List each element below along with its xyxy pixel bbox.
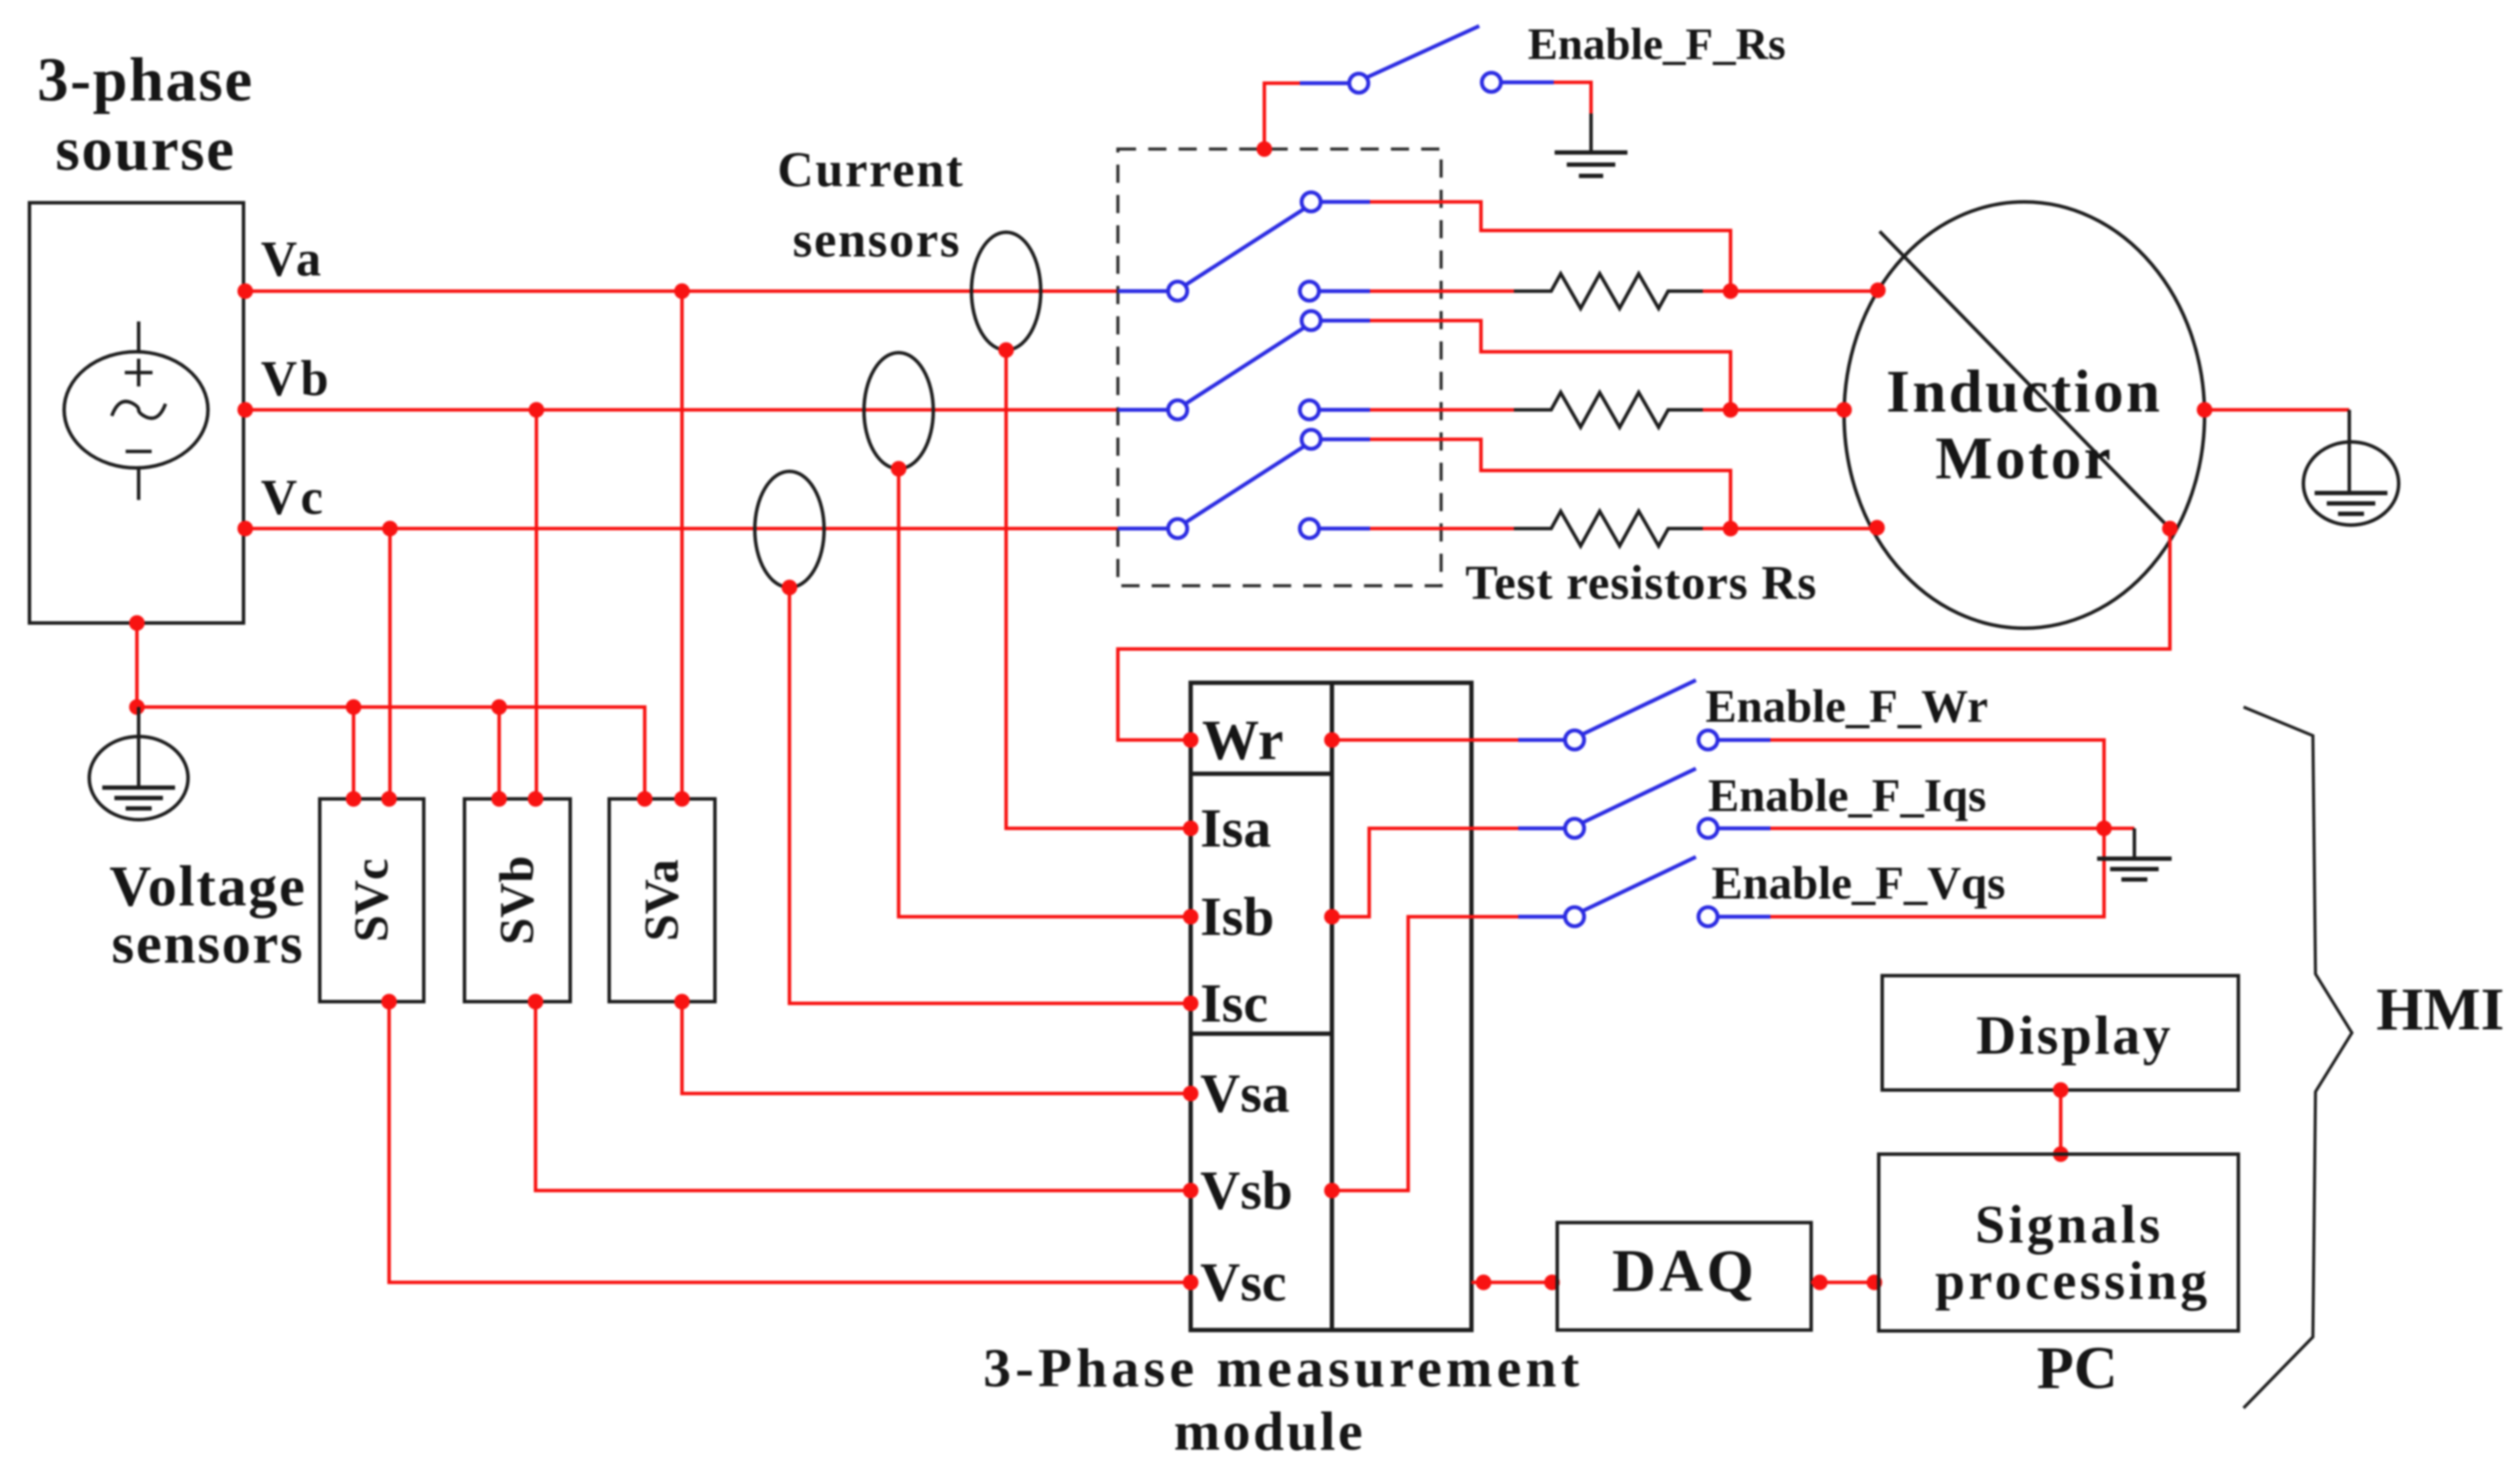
ground PE left (89, 707, 188, 820)
svg-text:Enable_F_Vqs: Enable_F_Vqs (1711, 857, 2005, 909)
node SVa pin right (674, 791, 690, 807)
node SVc pin right (381, 791, 397, 807)
svg-text:SVa: SVa (635, 860, 689, 941)
switch Enable_F_Rs (1257, 26, 1591, 157)
svg-text:Induction: Induction (1887, 359, 2163, 425)
svg-text:SVc: SVc (345, 859, 399, 942)
svg-text:SVb: SVb (490, 856, 544, 945)
induction motor M (1844, 202, 2205, 628)
HMI brace (2244, 707, 2352, 1408)
svg-text:Current: Current (777, 141, 964, 198)
switch Enable_F_Vqs (1518, 857, 1770, 926)
current sensor Isc (755, 471, 824, 587)
wire Vb to SVb (535, 410, 538, 799)
resistor Rs b (1370, 393, 1844, 427)
3-phase source box (29, 203, 244, 623)
node Wr out (1324, 732, 1340, 748)
svg-text:Wr: Wr (1202, 709, 1283, 772)
node pin Isc (1183, 996, 1198, 1011)
svg-text:sensors: sensors (793, 211, 961, 268)
switch S3 (phase c) (1118, 430, 1370, 538)
svg-text:Display: Display (1976, 1004, 2173, 1066)
wire SVb to Vsb (536, 1002, 1191, 1191)
node SVb pin right (528, 791, 543, 807)
Signals processing box (1879, 1154, 2238, 1331)
svg-text:Isc: Isc (1200, 972, 1268, 1034)
wire Isc down (789, 587, 1191, 1003)
Voltage sensors label (109, 854, 306, 976)
wire Vc to SVc (388, 529, 392, 799)
svg-text:Isb: Isb (1200, 886, 1274, 947)
svg-text:Vsa: Vsa (1200, 1062, 1289, 1124)
svg-text:sensors: sensors (112, 912, 304, 976)
switch S2 (phase b) (1118, 311, 1370, 419)
wire module to DAQ (1471, 1281, 1557, 1284)
wire bypass c (1370, 439, 1731, 529)
switch Enable_F_Iqs (1518, 769, 1770, 838)
node SVb pin left (491, 791, 507, 807)
current sensor Isa (971, 232, 1041, 350)
wire SVc to Vsc (389, 1002, 1191, 1282)
wire Vb (244, 408, 1118, 412)
svg-text:processing: processing (1935, 1252, 2211, 1311)
wire ground rail (137, 707, 645, 799)
svg-text:3-phase: 3-phase (37, 45, 254, 114)
svg-text:Vb: Vb (261, 350, 332, 406)
wire Isb down (899, 469, 1191, 917)
wire rail to SVb (497, 707, 501, 799)
node SVc pin left (346, 791, 361, 807)
svg-text:HMI: HMI (2376, 977, 2504, 1043)
wire Wr out (1332, 738, 1518, 742)
node Vb (237, 402, 253, 418)
node junction b (1723, 402, 1738, 418)
Current sensors label (777, 141, 964, 268)
motor terminal dots (1870, 282, 1886, 298)
ground (enable rail) (2097, 828, 2172, 879)
3-Phase measurement module label (984, 1337, 1584, 1462)
wire bypass a (1370, 202, 1731, 291)
voltage sensor SVa (609, 799, 715, 1002)
node Va (237, 283, 253, 299)
wire Vsb to Vqs switch (1332, 917, 1518, 1191)
current sensor Isb (864, 353, 933, 469)
svg-text:Vsb: Vsb (1200, 1159, 1293, 1221)
svg-text:Vc: Vc (261, 469, 327, 525)
wire Display to Signals processing (2059, 1090, 2062, 1154)
node junction c (1723, 521, 1738, 536)
svg-text:Enable_F_Wr: Enable_F_Wr (1705, 680, 1988, 732)
wire SVa to Vsa (682, 1002, 1191, 1093)
svg-text:Vsc: Vsc (1200, 1251, 1287, 1313)
svg-text:Voltage: Voltage (109, 854, 306, 918)
node junction a (1723, 283, 1738, 299)
node pin Isb (1183, 909, 1198, 925)
wire enable rail (1770, 740, 2104, 917)
svg-text:Test resistors Rs: Test resistors Rs (1465, 556, 1817, 610)
3-Phase measurement module box (1191, 683, 1471, 1330)
3-phase source label (37, 45, 254, 184)
wire DAQ to Signals processing (1811, 1281, 1879, 1284)
svg-text:sourse: sourse (55, 114, 236, 184)
svg-text:3-Phase measurement: 3-Phase measurement (984, 1337, 1584, 1398)
svg-text:module: module (1174, 1400, 1366, 1462)
svg-text:Motor: Motor (1935, 425, 2113, 492)
DAQ box (1557, 1223, 1811, 1330)
node SVa pin left (637, 791, 653, 807)
wire Va (244, 289, 1118, 293)
Display box (1882, 976, 2238, 1090)
switch S1 (phase a) (1118, 192, 1370, 301)
wire motor Wr to module (1118, 529, 2170, 740)
wire Isb to Iqs switch (1332, 828, 1518, 917)
module pin labels (1200, 709, 1293, 1313)
svg-text:Signals: Signals (1975, 1196, 2164, 1255)
node pin Wr (1183, 732, 1198, 748)
node Vc (237, 521, 253, 536)
wire Iqs to rail (1770, 827, 2134, 830)
ground (Enable_F_Rs) (1555, 114, 1627, 176)
wire motor to earth (2205, 408, 2349, 412)
node pin Vsb (1183, 1183, 1198, 1198)
svg-text:Isa: Isa (1200, 797, 1271, 859)
svg-text:Va: Va (261, 230, 325, 287)
wire Isa down (1006, 350, 1191, 828)
dashed relay box (1118, 149, 1441, 586)
resistor Rs a (1370, 274, 1878, 308)
svg-text:Enable_F_Iqs: Enable_F_Iqs (1708, 769, 1986, 821)
svg-text:DAQ: DAQ (1612, 1238, 1757, 1305)
wire Vc (244, 527, 1118, 530)
node Vsb out (1324, 1183, 1340, 1198)
node Isb out (1324, 909, 1340, 925)
resistor Rs c (1370, 511, 1877, 546)
node pin Vsa (1183, 1086, 1198, 1101)
switch Enable_F_Wr (1518, 680, 1770, 749)
svg-text:PC: PC (2036, 1335, 2117, 1402)
wire Va to SVa (680, 291, 684, 799)
wire source bottom to ground rail (135, 623, 139, 707)
svg-text:Enable_F_Rs: Enable_F_Rs (1528, 20, 1786, 69)
node pin Vsc (1183, 1275, 1198, 1290)
voltage sensor SVb (464, 799, 570, 1002)
ground PE right (2303, 410, 2399, 525)
AC voltage source symbol (64, 321, 208, 500)
voltage sensor SVc (320, 799, 424, 1002)
node pin Isa (1183, 821, 1198, 836)
wire bypass b (1370, 321, 1731, 410)
wire rail to SVc (352, 707, 355, 799)
